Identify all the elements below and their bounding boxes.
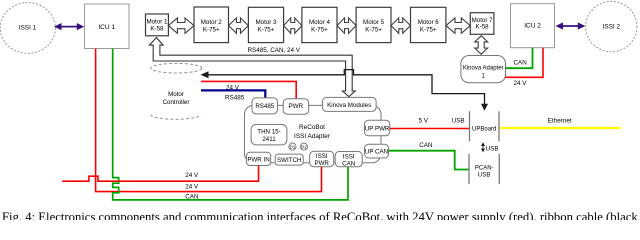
- svg-text:RS485: RS485: [225, 95, 245, 102]
- motor M3: [248, 7, 283, 42]
- wire red 24V ICU2-KinovaAdapter: [506, 48, 544, 87]
- wire red 24V supply to PWR IN: [62, 166, 258, 182]
- wire blue RS485 MC-RS485: [201, 90, 265, 101]
- svg-text:ISSI 2: ISSI 2: [603, 24, 621, 31]
- svg-text:2411: 2411: [262, 136, 276, 143]
- svg-text:K-58: K-58: [150, 26, 164, 33]
- ICU 1: [85, 4, 130, 49]
- motor M7: [470, 13, 494, 35]
- LED D2: [300, 143, 307, 150]
- svg-text:D1: D1: [289, 145, 295, 150]
- svg-text:ISSI: ISSI: [316, 153, 328, 160]
- svg-text:USB: USB: [478, 172, 490, 178]
- motor M1: [146, 14, 169, 36]
- svg-text:Motor 2: Motor 2: [201, 19, 223, 26]
- svg-text:ISSI Adapter: ISSI Adapter: [294, 133, 331, 140]
- computer UPBoard: [470, 111, 500, 141]
- motor M4: [302, 7, 337, 42]
- module ISSI 2: [586, 1, 637, 51]
- connector PWR: [283, 99, 309, 115]
- svg-text:THN 15-: THN 15-: [257, 128, 280, 135]
- svg-text:K-75+: K-75+: [258, 26, 275, 33]
- svg-text:K-58: K-58: [476, 24, 490, 31]
- module ReCoBot ISSI Adapter: [245, 105, 382, 162]
- connector Kinova Modules: [322, 97, 376, 111]
- wire block arrow M6-M7: [446, 18, 470, 33]
- svg-text:ICU 2: ICU 2: [524, 23, 541, 30]
- wire block arrow M7 to Kinova Adapter: [475, 36, 488, 54]
- wire purple link ICU2-ISSI2: [556, 22, 586, 29]
- svg-text:Kinova Adapter: Kinova Adapter: [463, 66, 504, 72]
- svg-text:CAN: CAN: [419, 142, 433, 149]
- svg-text:Motor 6: Motor 6: [418, 19, 440, 26]
- svg-text:PWR: PWR: [289, 103, 304, 110]
- adapter PCAN-USB: [469, 154, 499, 185]
- wire red 24V ICU1 to ISSI PWR: [96, 49, 322, 192]
- svg-text:Motor 5: Motor 5: [363, 19, 385, 26]
- svg-text:CAN: CAN: [185, 193, 199, 200]
- svg-text:K-75+: K-75+: [365, 26, 382, 33]
- svg-text:24 V: 24 V: [514, 80, 528, 87]
- connector ISSI CAN: [335, 152, 362, 168]
- wire block arrow M2-M3: [229, 18, 249, 33]
- svg-text:24 V: 24 V: [185, 172, 199, 179]
- svg-text:ISSI 1: ISSI 1: [19, 25, 37, 32]
- svg-text:Motor 3: Motor 3: [256, 19, 278, 26]
- wire green CAN ICU1 to ISSI CAN: [113, 49, 348, 201]
- svg-text:D2: D2: [301, 145, 307, 150]
- motor M6: [411, 7, 446, 42]
- svg-text:UP CAN: UP CAN: [365, 149, 388, 156]
- caption figure 4: [2, 210, 640, 224]
- svg-text:RS485, CAN, 24 V: RS485, CAN, 24 V: [248, 47, 301, 54]
- svg-text:SWITCH: SWITCH: [277, 157, 301, 164]
- wire block arrow M4-M5: [337, 18, 356, 33]
- svg-text:Motor: Motor: [168, 91, 184, 98]
- wire block arrow M5-M6: [391, 18, 411, 33]
- svg-text:5 V: 5 V: [419, 118, 429, 125]
- svg-text:CAN: CAN: [342, 160, 355, 167]
- wire red 5V UPPWR-UPBoard: [390, 118, 469, 129]
- wire red 24V MC-PWR: [201, 81, 296, 98]
- svg-text:Ethernet: Ethernet: [548, 118, 572, 125]
- motor controller cylinder: [151, 63, 202, 119]
- switch SWITCH: [275, 154, 303, 165]
- svg-text:ICU 1: ICU 1: [98, 24, 115, 31]
- module Kinova Adapter 1: [461, 56, 506, 83]
- wire USB UPBoard-PCANUSB: [481, 142, 499, 152]
- wire green CAN UPCAN-PCANUSB: [389, 142, 469, 169]
- svg-text:K-75+: K-75+: [203, 26, 220, 33]
- LED D1: [289, 143, 296, 150]
- svg-text:24 V: 24 V: [185, 184, 199, 191]
- converter THN 15-2411: [251, 125, 287, 145]
- connector UP CAN: [365, 144, 389, 158]
- svg-text:USB: USB: [486, 145, 499, 152]
- wire green CAN ICU2-KinovaAdapter: [506, 48, 533, 68]
- svg-text:PCAN-: PCAN-: [475, 166, 494, 172]
- wire yellow Ethernet: [500, 118, 621, 128]
- svg-text:UPBoard: UPBoard: [472, 126, 496, 132]
- svg-text:USB: USB: [452, 118, 465, 125]
- connector ISSI PWR: [310, 151, 334, 167]
- svg-text:K-75+: K-75+: [420, 26, 437, 33]
- module ISSI 1: [0, 3, 55, 54]
- wire block arrow M1-M2: [168, 18, 194, 33]
- svg-text:ReCoBot: ReCoBot: [299, 124, 325, 131]
- ICU 2: [511, 4, 555, 48]
- svg-text:Motor 4: Motor 4: [309, 19, 331, 26]
- motor M2: [194, 7, 229, 43]
- connector UP PWR: [364, 120, 390, 136]
- svg-text:Controller: Controller: [163, 99, 190, 106]
- svg-text:ISSI: ISSI: [343, 153, 355, 160]
- svg-text:PWR: PWR: [314, 160, 329, 167]
- svg-text:PWR IN: PWR IN: [247, 156, 269, 163]
- svg-text:K-75+: K-75+: [311, 26, 328, 33]
- motor M5: [356, 7, 391, 42]
- connector RS485: [252, 98, 278, 114]
- svg-text:Kinova Modules: Kinova Modules: [327, 102, 371, 109]
- connector PWR IN: [246, 152, 270, 165]
- svg-text:Motor 1: Motor 1: [146, 19, 168, 26]
- wire purple link ISSI1-ICU1: [54, 23, 84, 30]
- wire black ribbon MC to UPBoard: [201, 70, 489, 111]
- wire hollow bus pipe M1 to Kinova Modules: [150, 38, 356, 97]
- wire block arrow M3-M4: [284, 18, 302, 33]
- svg-text:CAN: CAN: [514, 60, 528, 67]
- svg-text:RS485: RS485: [255, 103, 274, 110]
- svg-text:UP PWR: UP PWR: [365, 125, 390, 132]
